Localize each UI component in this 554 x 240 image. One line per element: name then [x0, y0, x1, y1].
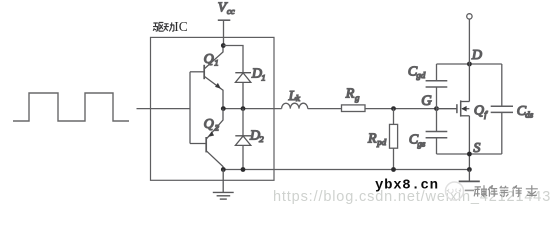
node G — [434, 106, 439, 111]
svg-text:g: g — [355, 92, 360, 102]
svg-text:Q: Q — [204, 117, 214, 132]
ground stub at source — [459, 170, 480, 182]
svg-text:S: S — [473, 141, 480, 156]
svg-text:R: R — [345, 87, 355, 102]
svg-text:k: k — [296, 93, 301, 103]
svg-text:1: 1 — [261, 72, 265, 82]
capacitor Cgd — [426, 64, 448, 109]
svg-text:2: 2 — [259, 134, 264, 144]
node middle row D column — [241, 106, 246, 111]
node Rpd bottom — [391, 167, 396, 172]
diode D2 — [235, 109, 251, 170]
node middle row Q column — [221, 106, 226, 111]
svg-text:ybx8.cn: ybx8.cn — [375, 178, 439, 194]
svg-text:G: G — [421, 93, 432, 109]
svg-text:D: D — [471, 48, 482, 63]
capacitor Cgs — [426, 109, 448, 154]
label 驱动IC — [153, 23, 164, 32]
watermark logo — [446, 182, 464, 200]
wire Vcc node to D1 column — [223, 46, 243, 73]
svg-text:Q: Q — [474, 103, 484, 118]
svg-text:2: 2 — [215, 123, 220, 133]
wire S rail — [437, 153, 502, 155]
wire base column — [189, 72, 191, 144]
node source bottom — [467, 167, 472, 172]
node D — [467, 62, 472, 67]
terminal — [467, 14, 472, 64]
svg-text:pd: pd — [376, 137, 386, 147]
node bottom rail Q column — [221, 167, 226, 172]
svg-text:gd: gd — [417, 70, 426, 80]
svg-text:f: f — [484, 109, 488, 119]
wire Lk to Rg — [308, 108, 342, 110]
driver IC box — [151, 37, 275, 180]
wire Q1 base — [190, 71, 204, 73]
node Vcc junction — [221, 43, 226, 48]
wire top rail — [437, 63, 502, 65]
transistor Q2 — [190, 109, 223, 170]
svg-text:cc: cc — [227, 6, 235, 16]
Vcc supply — [218, 20, 231, 45]
watermark 硬件笔记本 — [474, 185, 538, 197]
transistor Q1 — [204, 46, 223, 109]
wire bottom rail — [223, 169, 469, 171]
svg-text:ds: ds — [525, 109, 533, 119]
svg-text:IC: IC — [174, 19, 188, 34]
watermark dash — [465, 189, 474, 191]
svg-text:R: R — [367, 131, 377, 146]
ground — [213, 170, 234, 200]
node Rpd tap — [391, 106, 396, 111]
mosfet Qf — [437, 64, 470, 170]
svg-text:gs: gs — [418, 138, 426, 148]
svg-text:Q: Q — [204, 52, 214, 67]
capacitor Cds — [491, 64, 513, 154]
input square wave — [13, 93, 129, 121]
node bottom rail D column — [241, 167, 246, 172]
resistor Rg — [342, 105, 366, 112]
wire middle row — [223, 108, 281, 110]
node S — [467, 152, 472, 157]
wire Rg to gate — [365, 108, 457, 110]
wire input to driver box — [137, 108, 191, 110]
resistor Rpd — [390, 109, 398, 170]
svg-text:1: 1 — [214, 58, 218, 68]
inductor Lk — [282, 103, 308, 108]
diode D1 — [235, 73, 251, 109]
